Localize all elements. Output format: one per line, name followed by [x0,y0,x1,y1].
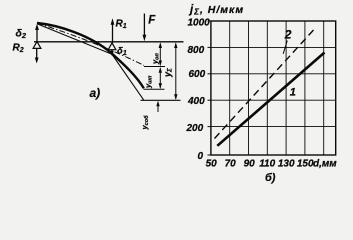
dimension y_op [159,42,162,66]
svg-text:800: 800 [188,45,205,56]
reaction R1 arrow (up) [111,18,115,43]
force F arrow (down) [143,14,147,42]
curve 2 (dashed) [215,30,314,139]
svg-text:d,мм: d,мм [313,158,337,169]
svg-text:50: 50 [206,158,218,169]
svg-text:200: 200 [186,123,204,134]
y axis value labels [186,18,211,163]
support triangle rear (left) [33,42,41,49]
svg-text:400: 400 [187,96,205,107]
dimension arrow y_sob (from below, up) [156,101,159,112]
axes frame [211,21,336,155]
svg-text:600: 600 [189,69,206,80]
svg-text:а): а) [90,86,101,100]
wire dash-dot rotated-axis line [37,23,144,65]
grid horizontal lines [211,47,336,126]
delta1 small arrow under front support (down) [110,50,114,57]
svg-text:0: 0 [198,151,204,162]
bottom level line y_sum [141,99,181,101]
svg-text:1000: 1000 [188,18,211,29]
svg-text:90: 90 [244,158,256,169]
svg-text:70: 70 [225,158,237,169]
tick level y_op [144,66,165,68]
dimension y_shp [159,67,162,89]
curve total elastic line (thick) [37,23,144,88]
curve 1 (solid) [217,53,324,146]
tick level y_shp [144,88,165,90]
wire beam axis line [34,41,184,43]
svg-text:2: 2 [284,28,292,42]
svg-text:1: 1 [290,86,296,98]
svg-text:130: 130 [278,158,295,169]
svg-text:б): б) [265,172,276,184]
x axis value labels [206,158,314,169]
paper background [0,0,353,191]
reaction R2 arrow (down) [35,49,39,64]
svg-text:F: F [148,15,156,27]
svg-text:150: 150 [297,158,314,169]
grid vertical lines [230,21,324,155]
svg-text:110: 110 [259,158,275,169]
support triangle front [108,43,116,50]
wire thin deflection polyline (supports compliance) [37,24,144,101]
end displacement arrow (up) at rear end [35,24,39,42]
dimension y_sum [174,42,177,100]
y axis ticks [208,21,211,155]
